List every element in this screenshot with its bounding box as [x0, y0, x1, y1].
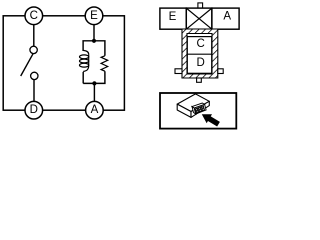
svg-text:E: E: [169, 11, 177, 23]
switch blade (open): [21, 54, 33, 76]
legend box border: [160, 93, 236, 129]
valve top pilot tab: [198, 3, 203, 8]
resistor zigzag: [101, 56, 108, 71]
svg-text:A: A: [223, 10, 231, 22]
svg-text:C: C: [30, 10, 38, 22]
svg-text:A: A: [91, 104, 99, 116]
wire from terminal C down to switch contact: [33, 25, 35, 47]
wire top rail of parallel branch: [83, 41, 105, 56]
svg-text:E: E: [90, 10, 98, 22]
svg-text:C: C: [197, 38, 205, 50]
left side tab: [175, 69, 182, 74]
terminal E: [85, 7, 103, 25]
switch lower contact: [31, 72, 38, 79]
valve body X: [186, 8, 212, 29]
port box E: [160, 8, 186, 29]
port box A: [212, 8, 239, 29]
svg-text:D: D: [196, 57, 204, 69]
chamber box C/D: [187, 37, 211, 74]
wire from terminal E down to node 1: [93, 25, 95, 41]
terminal C: [25, 7, 43, 25]
connector icon body (isometric box): [177, 94, 209, 118]
connector plug block with pins: [192, 103, 206, 114]
inductor coil (relay winding): [80, 50, 89, 71]
wire from coil to bottom rail: [82, 72, 84, 84]
canister hatched shell: [182, 29, 218, 78]
wire from node 2 down to terminal A: [93, 83, 95, 101]
right side tab: [218, 69, 223, 74]
wire from switch lower contact to terminal D: [33, 79, 35, 101]
node 1 junction dot: [92, 39, 96, 43]
terminal A: [86, 101, 104, 119]
switch upper contact: [30, 46, 37, 53]
legend arrow: [199, 110, 221, 129]
terminal D: [25, 101, 43, 119]
bottom tab: [197, 78, 202, 82]
wire frame loop of relay circuit: [3, 16, 124, 110]
svg-text:D: D: [30, 104, 38, 116]
node 2 junction dot: [92, 81, 96, 85]
wire bottom rail of parallel branch: [83, 71, 105, 83]
